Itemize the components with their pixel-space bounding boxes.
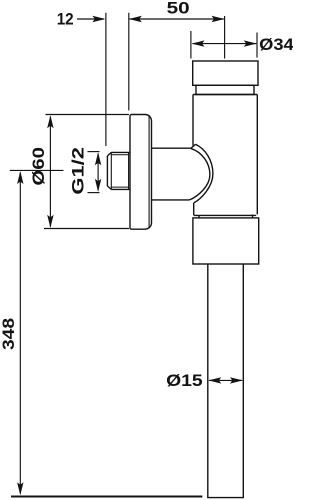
nipple chamfer line xyxy=(110,152,112,189)
valve body xyxy=(193,95,257,216)
ref line 348 bottom xyxy=(11,496,202,498)
svg-text:50: 50 xyxy=(167,0,190,18)
dim line d34 xyxy=(193,43,257,45)
inlet cone inner curve xyxy=(190,148,210,200)
ext line d60 top xyxy=(46,114,130,116)
dim line 348 xyxy=(19,173,21,494)
valve cap xyxy=(193,61,258,85)
valve neck band xyxy=(196,85,254,94)
dim line d15 xyxy=(209,379,242,381)
svg-text:G1/2: G1/2 xyxy=(69,147,87,195)
inlet cone chamfer xyxy=(191,144,196,148)
arrow 50 right xyxy=(212,16,225,22)
dim line 12 xyxy=(77,18,104,20)
arrow G12 up xyxy=(95,152,101,165)
extension line cap left xyxy=(190,31,192,59)
tick G12 bottom xyxy=(88,192,100,194)
outlet pipe xyxy=(208,264,244,498)
inlet cone outer curve xyxy=(194,144,213,203)
arrow d34 left xyxy=(192,40,205,46)
arrow d34 right xyxy=(244,40,257,46)
arrow d60 down xyxy=(47,215,53,228)
arrow 12 right xyxy=(92,16,105,22)
arrow d60 up xyxy=(47,115,53,128)
arrow 50 left xyxy=(129,16,142,22)
threaded nipple outline xyxy=(107,152,130,189)
dim line G12 xyxy=(97,154,99,191)
svg-text:Ø34: Ø34 xyxy=(259,36,293,54)
nipple thread root line xyxy=(128,152,130,189)
ref line 348 top xyxy=(10,169,64,171)
extension line cap right xyxy=(256,33,258,58)
step nub right xyxy=(252,214,254,218)
step nub left xyxy=(198,215,200,218)
extension line flange face xyxy=(128,13,130,111)
inlet cone top line xyxy=(151,147,191,149)
svg-text:Ø15: Ø15 xyxy=(166,372,203,390)
svg-text:12: 12 xyxy=(57,10,74,28)
ext line d60 bottom xyxy=(44,228,129,230)
arrow d15 right xyxy=(230,377,243,383)
nipple thread minor lines xyxy=(111,155,128,187)
dim line d60 xyxy=(49,117,51,227)
svg-text:Ø60: Ø60 xyxy=(30,147,48,186)
extension line valve centerline xyxy=(224,16,226,59)
extension line nipple face xyxy=(105,13,107,146)
arrow 348 down xyxy=(17,482,23,495)
tick G12 top xyxy=(88,151,100,153)
wall flange xyxy=(130,115,152,230)
arrow 348 up xyxy=(17,171,23,184)
arrow G12 down xyxy=(95,179,101,192)
inlet cone bottom line xyxy=(151,199,190,201)
svg-text:348: 348 xyxy=(0,318,18,350)
lower block xyxy=(193,218,259,264)
arrow d15 left xyxy=(208,377,221,383)
dim line 50 xyxy=(130,18,224,20)
flange face line xyxy=(148,115,150,228)
